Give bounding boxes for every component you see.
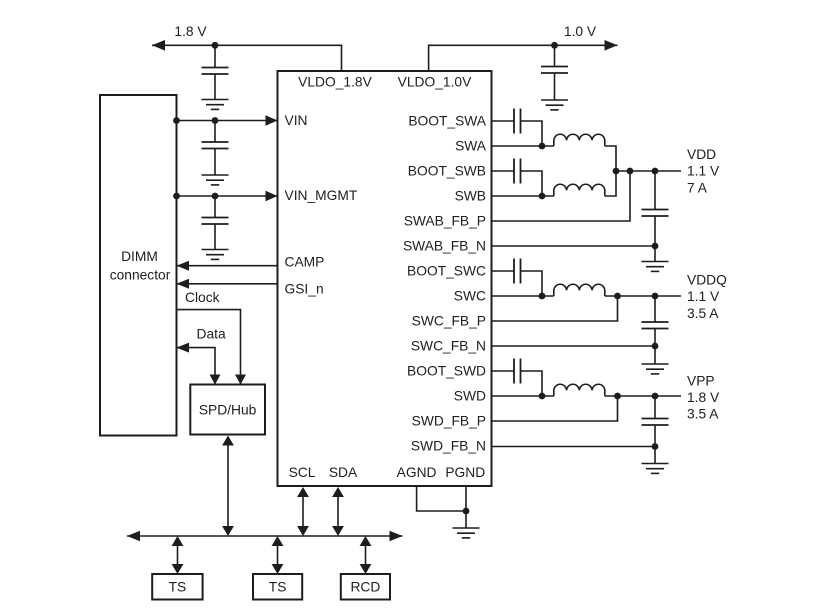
svg-text:Clock: Clock bbox=[185, 290, 220, 305]
wire SWD_FB_P bbox=[492, 396, 618, 421]
wire 1.0V rail with right arrow bbox=[429, 40, 618, 71]
svg-text:SWB: SWB bbox=[455, 189, 486, 204]
junction SWAB_FB_N at cap bbox=[652, 243, 659, 250]
wire SWB pin bbox=[492, 195, 554, 197]
junction VIN at DIMM bbox=[173, 117, 180, 124]
wire 1.8V rail with left arrow bbox=[152, 40, 342, 71]
wire LA to VDD node bbox=[605, 146, 616, 171]
wire BOOT_SWB pin bbox=[492, 170, 515, 172]
wire VDD output bbox=[616, 170, 681, 172]
svg-text:DIMM: DIMM bbox=[121, 249, 158, 264]
wire SWD_FB_N bbox=[492, 446, 656, 448]
junction BOOT_SWC at switch node bbox=[539, 293, 546, 300]
wire GSI_n (U1 to DIMM) bbox=[177, 279, 278, 289]
wire Clock (DIMM to SPD/Hub) bbox=[177, 310, 247, 385]
svg-text:RCD: RCD bbox=[350, 580, 380, 595]
junction BOOT_SWD at switch node bbox=[539, 393, 546, 400]
RCD box bbox=[341, 574, 390, 600]
svg-text:Data: Data bbox=[197, 326, 226, 341]
svg-text:3.5 A: 3.5 A bbox=[687, 306, 719, 321]
svg-text:7 A: 7 A bbox=[687, 181, 708, 196]
ground (VDDQ output cap) bbox=[642, 364, 669, 374]
ground (VIN bypass cap) bbox=[202, 175, 229, 185]
wire SWAB_FB_P bbox=[492, 171, 631, 221]
junction on 1.8V rail bbox=[212, 42, 219, 49]
junction AGND-PGND bbox=[463, 508, 470, 515]
wire VDD cap to ground bbox=[654, 246, 656, 262]
svg-text:SWD: SWD bbox=[454, 389, 486, 404]
ground (1.0V bypass cap) bbox=[541, 100, 568, 110]
junction BOOT_SWA at switch node bbox=[539, 143, 546, 150]
inductor LB bbox=[554, 184, 605, 196]
capacitor 1.0V rail bypass bbox=[541, 45, 568, 100]
svg-text:1.0 V: 1.0 V bbox=[564, 24, 597, 39]
TS box 1 bbox=[152, 574, 202, 600]
svg-text:SDA: SDA bbox=[329, 465, 358, 480]
wire SDA to bus (bidirectional) bbox=[332, 487, 344, 536]
capacitor VIN bypass bbox=[202, 121, 229, 176]
wire SCL to bus (bidirectional) bbox=[297, 487, 309, 536]
inductor LA bbox=[554, 134, 605, 146]
wire SWC_FB_P bbox=[492, 296, 618, 321]
svg-text:GSI_n: GSI_n bbox=[285, 282, 324, 297]
svg-text:BOOT_SWD: BOOT_SWD bbox=[407, 364, 486, 379]
svg-text:1.8 V: 1.8 V bbox=[687, 390, 720, 405]
wire I2C bus bbox=[127, 531, 403, 542]
junction VDDQ feedback tap bbox=[614, 293, 621, 300]
capacitor BOOT_SWD bootstrap bbox=[514, 359, 521, 384]
inductor LC bbox=[554, 284, 605, 296]
wire SWC pin bbox=[492, 295, 554, 297]
svg-text:VLDO_1.8V: VLDO_1.8V bbox=[298, 75, 372, 90]
svg-text:BOOT_SWC: BOOT_SWC bbox=[407, 264, 486, 279]
svg-text:SWD_FB_N: SWD_FB_N bbox=[411, 439, 486, 454]
svg-text:SWC: SWC bbox=[454, 289, 486, 304]
capacitor BOOT_SWC bootstrap bbox=[514, 259, 521, 284]
wire BOOT_SWC cap to switch node bbox=[521, 271, 543, 296]
svg-text:3.5 A: 3.5 A bbox=[687, 407, 719, 422]
ground (1.8V bypass cap) bbox=[202, 100, 229, 110]
wire BOOT_SWD pin bbox=[492, 370, 515, 372]
svg-text:TS: TS bbox=[269, 580, 287, 595]
wire BOOT_SWA cap to switch node bbox=[521, 121, 543, 146]
wire SWC_FB_N bbox=[492, 345, 656, 347]
inductor LD bbox=[554, 384, 605, 396]
svg-text:SWC_FB_N: SWC_FB_N bbox=[411, 339, 486, 354]
wire LC to VDDQ node bbox=[605, 295, 681, 297]
capacitor BOOT_SWB bootstrap bbox=[514, 159, 521, 184]
capacitor VDDQ output bbox=[642, 296, 669, 346]
junction BOOT_SWB at switch node bbox=[539, 193, 546, 200]
junction SWD_FB_N at cap bbox=[652, 443, 659, 450]
junction VDD feedback tap bbox=[627, 168, 634, 175]
junction on 1.0V rail bbox=[551, 42, 558, 49]
svg-text:SWD_FB_P: SWD_FB_P bbox=[412, 414, 486, 429]
svg-text:VIN_MGMT: VIN_MGMT bbox=[285, 188, 358, 203]
svg-text:VPP: VPP bbox=[687, 374, 715, 389]
svg-text:TS: TS bbox=[169, 580, 187, 595]
capacitor VPP output bbox=[642, 396, 669, 447]
junction VIN at cap bbox=[212, 117, 219, 124]
junction LA/LB at VDD bbox=[613, 168, 620, 175]
svg-text:VDD: VDD bbox=[687, 147, 716, 162]
junction VDD cap tap bbox=[652, 168, 659, 175]
ground (AGND/PGND) bbox=[453, 528, 480, 538]
svg-text:VLDO_1.0V: VLDO_1.0V bbox=[398, 75, 472, 90]
wire to ground bbox=[465, 511, 467, 528]
DIMM connector box bbox=[100, 95, 177, 436]
wire LB to VDD node bbox=[605, 171, 616, 196]
wire SWD pin bbox=[492, 395, 554, 397]
junction VIN_MGMT at DIMM bbox=[173, 193, 180, 200]
IC U1 PMIC body bbox=[278, 71, 492, 486]
svg-text:SCL: SCL bbox=[289, 465, 316, 480]
ground (VIN_MGMT bypass cap) bbox=[202, 250, 229, 260]
svg-text:VDDQ: VDDQ bbox=[687, 273, 727, 288]
junction VPP feedback tap bbox=[614, 393, 621, 400]
wire BOOT_SWA pin bbox=[492, 120, 515, 122]
svg-text:1.1 V: 1.1 V bbox=[687, 289, 720, 304]
svg-text:SPD/Hub: SPD/Hub bbox=[199, 403, 257, 418]
junction VIN_MGMT at cap bbox=[212, 193, 219, 200]
svg-text:SWAB_FB_N: SWAB_FB_N bbox=[403, 239, 486, 254]
wire BOOT_SWC pin bbox=[492, 270, 515, 272]
wire bus to TS2 (bidirectional) bbox=[272, 536, 284, 574]
SPD/Hub box bbox=[190, 385, 265, 435]
wire VIN (DIMM to U1) bbox=[177, 115, 278, 125]
svg-text:PGND: PGND bbox=[445, 465, 485, 480]
svg-text:SWC_FB_P: SWC_FB_P bbox=[412, 314, 486, 329]
svg-text:BOOT_SWB: BOOT_SWB bbox=[408, 164, 486, 179]
svg-text:AGND: AGND bbox=[397, 465, 437, 480]
capacitor VDD output bbox=[642, 171, 669, 246]
junction VPP cap tap bbox=[652, 393, 659, 400]
wire VDDQ cap to ground bbox=[654, 346, 656, 364]
svg-text:SWAB_FB_P: SWAB_FB_P bbox=[404, 214, 486, 229]
svg-text:1.1 V: 1.1 V bbox=[687, 164, 720, 179]
wire bus to TS1 (bidirectional) bbox=[172, 536, 184, 574]
wire CAMP (U1 to DIMM) bbox=[177, 261, 278, 271]
capacitor VIN_MGMT bypass bbox=[202, 196, 229, 250]
wire LD to VPP node bbox=[605, 395, 681, 397]
ground (VPP output cap) bbox=[642, 464, 669, 474]
junction SWC_FB_N at cap bbox=[652, 343, 659, 350]
svg-text:VIN: VIN bbox=[285, 113, 308, 128]
wire Data (SPD/Hub to DIMM) bbox=[177, 343, 221, 385]
wire BOOT_SWD cap to switch node bbox=[521, 371, 543, 396]
wire SWAB_FB_N bbox=[492, 245, 656, 247]
svg-text:BOOT_SWA: BOOT_SWA bbox=[408, 114, 486, 129]
svg-text:1.8 V: 1.8 V bbox=[174, 24, 207, 39]
capacitor 1.8V rail bypass bbox=[202, 45, 229, 99]
capacitor BOOT_SWA bootstrap bbox=[514, 109, 521, 134]
wire BOOT_SWB cap to switch node bbox=[521, 171, 543, 196]
svg-text:SWA: SWA bbox=[455, 139, 487, 154]
wire AGND bbox=[417, 486, 466, 511]
wire VPP cap to ground bbox=[654, 447, 656, 464]
svg-text:connector: connector bbox=[110, 268, 171, 283]
junction VDDQ cap tap bbox=[652, 293, 659, 300]
wire SPD/Hub to bus (bidirectional) bbox=[222, 436, 234, 537]
ground (VDD output cap) bbox=[642, 262, 669, 272]
svg-text:CAMP: CAMP bbox=[285, 255, 325, 270]
wire bus to RCD (bidirectional) bbox=[360, 536, 372, 574]
wire VIN_MGMT (DIMM to U1) bbox=[177, 191, 278, 201]
wire PGND bbox=[465, 486, 467, 511]
wire SWA pin bbox=[492, 145, 554, 147]
TS box 2 bbox=[253, 574, 302, 600]
